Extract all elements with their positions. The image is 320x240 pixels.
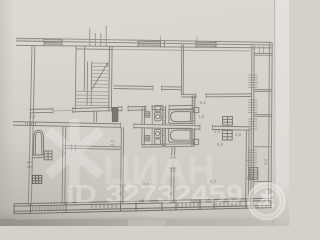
arched niche bottom-left room: [32, 130, 45, 158]
top outer wall band: [16, 38, 272, 48]
faint lower paper line: [15, 217, 150, 219]
kitchen sink upper: [194, 107, 199, 112]
paper right edge: [274, 0, 277, 226]
lower room wall Vb: [121, 127, 124, 203]
top wall window hatch left x16-44: [17, 38, 42, 41]
hallway wall H6: [62, 146, 120, 150]
svg-text:2,6: 2,6: [235, 132, 242, 137]
svg-text:4,2: 4,2: [110, 139, 115, 146]
staircase landing line top: [76, 48, 112, 51]
vent shaft box lower: [222, 130, 232, 140]
staircase right wall: [109, 46, 112, 112]
central spine wall: [13, 122, 250, 131]
bottom wall window hatches: [33, 201, 240, 211]
entrance porch lines above top wall: [90, 26, 107, 47]
top wall dividers: [44, 39, 216, 49]
kitchen sink lower: [193, 139, 198, 144]
staircase left wall: [74, 46, 77, 111]
lower room wall Vc: [171, 147, 175, 203]
toilet lower: [154, 129, 160, 144]
lower room wall Va: [62, 126, 66, 205]
kitchen top wall H1b: [181, 94, 251, 97]
spine wall window hatch x25-35: [26, 122, 36, 125]
watermark asterisk logo: [45, 119, 104, 187]
top wall window hatch x196-216: [196, 42, 216, 46]
bottom wall dividers: [14, 198, 271, 214]
circular stamp bottom right: [248, 183, 285, 220]
wall stub between corridor and spine: [94, 111, 97, 122]
dimension ticks above mid rooms: [161, 36, 198, 41]
top wall layered window x44-62: [44, 40, 62, 45]
bathroom wall x142: [142, 106, 145, 146]
toilet cell wall x152: [151, 106, 153, 146]
wall V2 between mid and right rooms: [181, 45, 183, 96]
svg-text:5,2: 5,2: [247, 176, 254, 181]
washbasin upper: [145, 112, 150, 117]
small vent box near niche: [44, 151, 52, 160]
grid shaft box left: [32, 175, 41, 183]
bathtub upper: [169, 110, 192, 124]
staircase center rails: [87, 62, 92, 106]
bottom outer wall band (dark): [14, 198, 271, 214]
bottom table shadow below paper edge: [0, 214, 289, 220]
svg-text:3,0: 3,0: [29, 114, 36, 119]
staircase upper flight steps: [91, 63, 109, 88]
staircase left rail: [83, 46, 85, 91]
balcony dividers right strip: [247, 46, 264, 160]
left wall: [28, 46, 35, 206]
hatched chimney box right side: [249, 168, 258, 180]
lower bathroom bottom wall H5: [142, 144, 195, 147]
svg-text:1,8: 1,8: [198, 114, 205, 119]
staircase lower flight steps: [75, 92, 109, 106]
staircase direction arrow: [92, 63, 108, 89]
vent shaft box upper: [223, 117, 233, 125]
window hatch on right inner wall: [248, 75, 258, 165]
svg-text:2,0: 2,0: [214, 129, 221, 134]
corridor wall below staircase (H2): [30, 105, 193, 112]
top wall window hatch x138-160: [138, 41, 160, 45]
H2 door ticks: [53, 105, 169, 114]
door ticks on left wall: [27, 162, 34, 167]
wall H1 (mid room bottom): [114, 86, 182, 90]
bathroom hatched wall x192-194.7: [192, 96, 195, 147]
svg-text:ID 32732459: ID 32732459: [66, 179, 243, 209]
lower room wall Vd: [246, 130, 249, 201]
washbasin lower: [145, 136, 150, 141]
dark vent box at stair bottom: [112, 108, 118, 122]
bathroom hatched wall x163-165.5: [163, 106, 166, 146]
bathtub lower: [169, 128, 192, 142]
room area labels: [29, 100, 268, 203]
inner face line of top wall: [112, 50, 250, 52]
svg-text:5,9: 5,9: [217, 142, 224, 147]
spine door ticks: [121, 122, 213, 130]
svg-text:3,2: 3,2: [263, 158, 268, 165]
svg-text:6,2: 6,2: [200, 100, 207, 105]
right inner wall with windows: [251, 46, 254, 206]
right outer wall (balcony rail): [268, 43, 272, 206]
toilet upper: [155, 106, 161, 121]
